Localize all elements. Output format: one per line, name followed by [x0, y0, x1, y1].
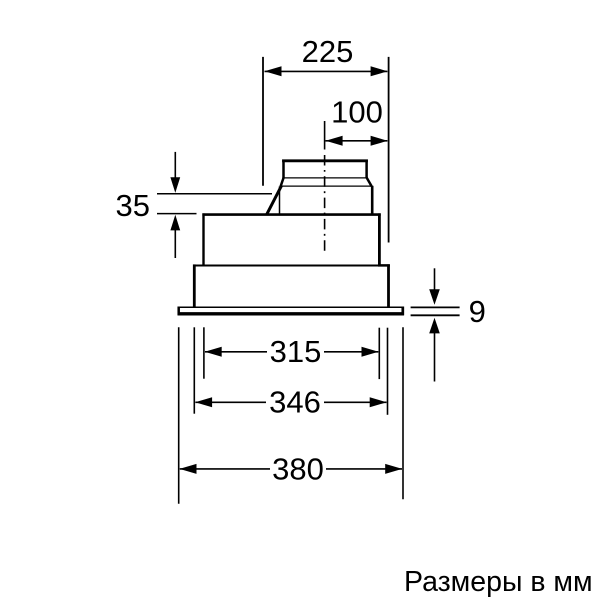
dimension 225 extension lines [263, 57, 389, 243]
duct collar lower seam [280, 185, 371, 187]
svg-text:Размеры в мм: Размеры в мм [404, 566, 593, 598]
duct collar base sides [280, 186, 373, 214]
vertical centerline [324, 121, 326, 255]
dimension 35 up arrow [174, 230, 176, 258]
duct collar flares [281, 177, 372, 186]
svg-text:100: 100 [331, 94, 383, 129]
dimension 380 extension lines [179, 327, 403, 503]
dimension 35 down arrow [174, 152, 176, 178]
dimension 380 line [180, 468, 402, 470]
dimension 315 extension lines [204, 327, 379, 379]
svg-text:35: 35 [116, 188, 150, 223]
svg-text:9: 9 [469, 294, 486, 329]
svg-text:225: 225 [302, 34, 354, 69]
duct collar upper seam [283, 177, 367, 179]
svg-text:380: 380 [272, 451, 324, 486]
dimension 346 line [195, 401, 386, 403]
dimension 35 extension lines [157, 194, 272, 214]
duct collar top edge [282, 160, 368, 179]
svg-text:346: 346 [269, 385, 321, 420]
dimension 315 line [205, 351, 378, 353]
dimension 100 line [325, 140, 387, 142]
dimension 9 down arrow [434, 268, 436, 290]
hood mid body [202, 213, 380, 266]
left slope line [267, 186, 282, 215]
dimension 225 line [265, 70, 388, 72]
svg-text:315: 315 [270, 334, 322, 369]
dimension 9 up arrow [434, 333, 436, 382]
dimension 346 extension lines [194, 327, 387, 415]
dimension 9 reference lines [411, 307, 460, 315]
hood lower body [193, 264, 390, 307]
bottom flange [178, 307, 404, 316]
